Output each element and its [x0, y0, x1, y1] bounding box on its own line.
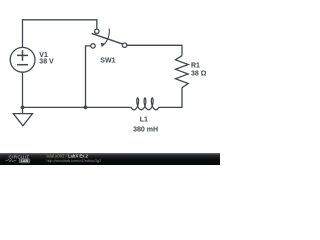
voltage source V1 [10, 47, 35, 72]
resistor R1 [176, 56, 189, 88]
wire SW1 right throw to R1 [127, 45, 182, 55]
inductor L1 [127, 98, 163, 110]
junction lower-left [84, 106, 88, 110]
svg-text:htlp://circuitlab.com/c47sdbuv: htlp://circuitlab.com/c47sdbuv3g2 [47, 159, 102, 163]
wire V1 bottom to ground junction [22, 72, 24, 113]
wire SW1 lower throw to bottom net [86, 46, 91, 108]
svg-text:LAB: LAB [21, 159, 29, 163]
switch SW1 [91, 28, 127, 48]
watermark bar [0, 153, 220, 165]
svg-text:lalal.a002 / LabX Ex.2: lalal.a002 / LabX Ex.2 [47, 154, 89, 159]
wire top from V1 to SW1 [23, 20, 97, 48]
wire bottom net from junction to inductor [23, 106, 128, 108]
wire R1 bottom to inductor [163, 88, 182, 108]
ground [13, 114, 32, 126]
CircuitLab logo [6, 154, 30, 163]
junction at ground node [21, 106, 25, 110]
